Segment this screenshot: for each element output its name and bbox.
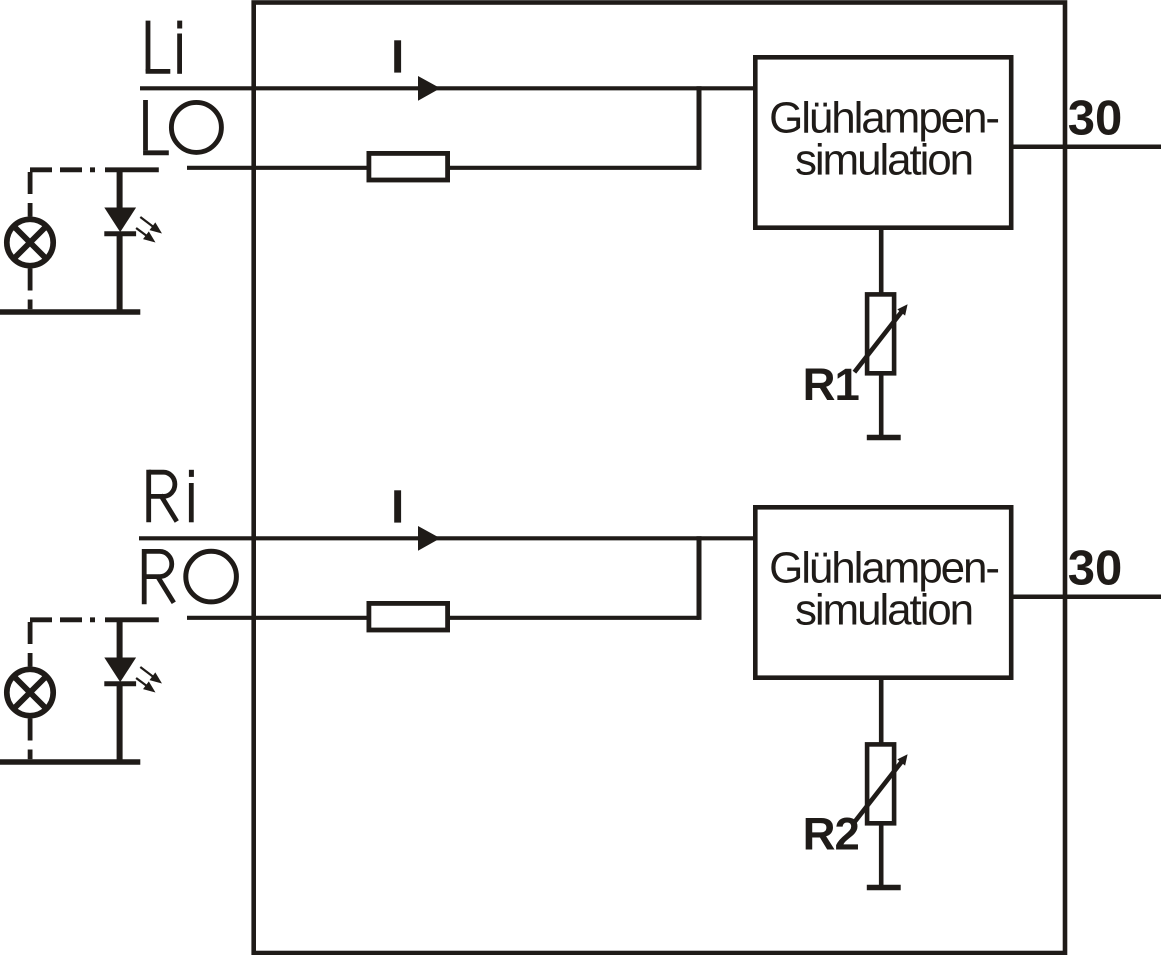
svg-text:simulation: simulation (795, 135, 972, 184)
svg-text:R1: R1 (803, 359, 860, 410)
block U2 Gluehlampensimulation (bottom) (755, 507, 1011, 677)
node RO label (144, 549, 236, 604)
wire LO input right segment (449, 166, 700, 170)
wire R1 to terminal (879, 373, 884, 437)
dashed wire lamp branch horizontal (bottom) (30, 617, 159, 622)
terminal stub (bottom) (867, 885, 901, 891)
wire block to R2 (879, 680, 884, 744)
label I (top current) (394, 40, 401, 72)
LED D2 light arrows (136, 667, 162, 693)
dashed wire lamp branch vertical upper (top) (28, 172, 33, 217)
wire R2 to terminal (879, 823, 884, 887)
dashed wire lamp branch vertical upper (bottom) (28, 622, 33, 667)
node 30 label (top) (1068, 92, 1123, 146)
resistor (LO series, top) (369, 153, 448, 180)
dashed wire lamp branch horizontal (top) (30, 167, 159, 172)
wire output 30 (bottom) (1013, 595, 1161, 600)
wire lamp branch bottom rail (bottom) (0, 759, 140, 765)
wire lamp branch bottom rail (top) (0, 309, 140, 315)
block U1 Gluehlampensimulation (top) (755, 57, 1011, 227)
label I (bottom current) (394, 490, 401, 522)
LED D1 light arrows (136, 217, 162, 243)
label Gluehlampen-simulation (bottom) (769, 544, 998, 635)
resistor R2 (variable) (854, 744, 907, 823)
wire junction vertical (bottom) (697, 536, 702, 620)
node LO label (143, 100, 221, 153)
wire LO input left segment (187, 166, 368, 170)
label R1 (803, 359, 860, 410)
wire output 30 (top) (1013, 145, 1161, 150)
wire block to R1 (879, 230, 884, 294)
node 30 label (bottom) (1068, 542, 1123, 596)
LED D2 (bottom) (104, 620, 136, 760)
terminal stub (top) (867, 435, 901, 441)
label Gluehlampen-simulation (top) (769, 94, 998, 185)
lamp L2 symbol (bottom) (7, 669, 53, 715)
wire RO input right segment (449, 616, 700, 620)
dashed wire lamp branch vertical lower (bottom) (28, 719, 33, 760)
svg-text:30: 30 (1068, 542, 1123, 596)
module boundary box (254, 3, 1065, 954)
svg-text:simulation: simulation (795, 585, 972, 634)
wire Li input (140, 86, 753, 90)
resistor R1 (variable) (854, 294, 907, 373)
wire RO input left segment (187, 616, 368, 620)
node Li label (146, 21, 183, 74)
svg-text:30: 30 (1068, 92, 1123, 146)
dashed wire lamp branch vertical lower (top) (28, 269, 33, 310)
current arrow I (top) (418, 76, 440, 101)
current arrow I (bottom) (418, 526, 440, 551)
LED D1 (top) (104, 170, 136, 310)
label R2 (803, 809, 859, 860)
lamp L1 symbol (top) (7, 219, 53, 265)
resistor (RO series, bottom) (369, 603, 448, 630)
svg-text:R2: R2 (803, 809, 859, 860)
wire Ri input (139, 536, 753, 540)
wire junction vertical (top) (697, 86, 702, 170)
node Ri label (149, 470, 194, 523)
